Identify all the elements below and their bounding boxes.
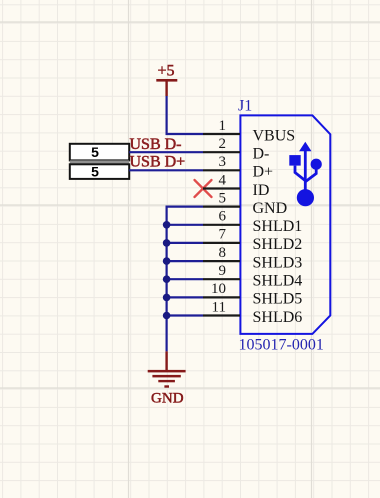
svg-text:9: 9	[219, 263, 227, 279]
pin 8 SHLD3	[203, 245, 302, 272]
svg-text:SHLD3: SHLD3	[253, 254, 303, 271]
svg-text:D+: D+	[253, 164, 274, 181]
port box 5 (USB D+)	[70, 163, 129, 179]
wire bus to pin 9	[167, 278, 203, 280]
wire bus to pin 10	[167, 296, 203, 298]
svg-text:8: 8	[219, 245, 227, 261]
svg-text:USB D-: USB D-	[130, 136, 182, 153]
junction pin 9	[163, 275, 171, 283]
svg-text:D-: D-	[253, 146, 270, 163]
svg-text:SHLD2: SHLD2	[253, 236, 303, 253]
connector J1 body	[240, 115, 330, 334]
svg-text:SHLD1: SHLD1	[253, 218, 303, 235]
svg-text:SHLD6: SHLD6	[253, 309, 303, 326]
wire USB D+ to pin 3	[129, 169, 203, 171]
wire bus to pin 11	[167, 314, 203, 316]
svg-text:3: 3	[219, 154, 227, 170]
svg-text:GND: GND	[151, 391, 184, 407]
wire +5 to pin 1	[167, 96, 203, 134]
svg-text:5: 5	[91, 163, 99, 179]
svg-text:11: 11	[212, 299, 226, 315]
wire pin 5 to ground bus (elbow)	[167, 207, 203, 352]
pin 11 SHLD6	[203, 299, 302, 326]
svg-text:VBUS: VBUS	[253, 127, 296, 144]
svg-text:10: 10	[211, 281, 226, 297]
pin 10 SHLD5	[203, 281, 302, 308]
pin 6 SHLD1	[203, 209, 302, 236]
pin 3 D+	[203, 154, 273, 181]
svg-text:+5: +5	[157, 62, 174, 79]
no-connect X on pin 4	[195, 180, 212, 197]
pin 1 VBUS	[203, 118, 295, 145]
svg-text:SHLD4: SHLD4	[253, 273, 303, 290]
wire bus to pin 7	[167, 242, 203, 244]
pin 9 SHLD4	[203, 263, 302, 290]
ground symbol GND	[148, 351, 186, 406]
junction pin 10	[163, 294, 171, 302]
svg-text:J1: J1	[238, 98, 252, 115]
svg-text:2: 2	[219, 136, 227, 152]
junction pin 6	[163, 221, 171, 229]
wire bus to pin 8	[167, 260, 203, 262]
wire USB D- to pin 2	[129, 151, 203, 153]
pin 5 GND	[203, 190, 287, 217]
svg-text:6: 6	[219, 209, 227, 225]
svg-text:1: 1	[219, 118, 227, 134]
svg-text:SHLD5: SHLD5	[253, 291, 303, 308]
junction pin 7	[163, 239, 171, 247]
junction pin 11	[163, 312, 171, 320]
power +5 symbol	[156, 62, 177, 96]
svg-text:GND: GND	[253, 200, 288, 217]
svg-text:5: 5	[219, 190, 227, 206]
port box 5 (USB D-)	[70, 144, 129, 161]
pin 4 ID	[203, 172, 269, 199]
svg-text:USB D+: USB D+	[130, 154, 186, 171]
svg-text:ID: ID	[253, 182, 270, 199]
gray divider	[70, 160, 129, 164]
junction pin 8	[163, 257, 171, 265]
svg-text:5: 5	[91, 144, 99, 160]
wire bus to pin 6	[167, 224, 203, 226]
svg-text:4: 4	[219, 172, 227, 188]
svg-text:7: 7	[219, 227, 227, 243]
pin 7 SHLD2	[203, 227, 302, 254]
pin 2 D-	[203, 136, 269, 163]
USB logo	[289, 142, 322, 206]
svg-text:105017-0001: 105017-0001	[239, 337, 324, 354]
